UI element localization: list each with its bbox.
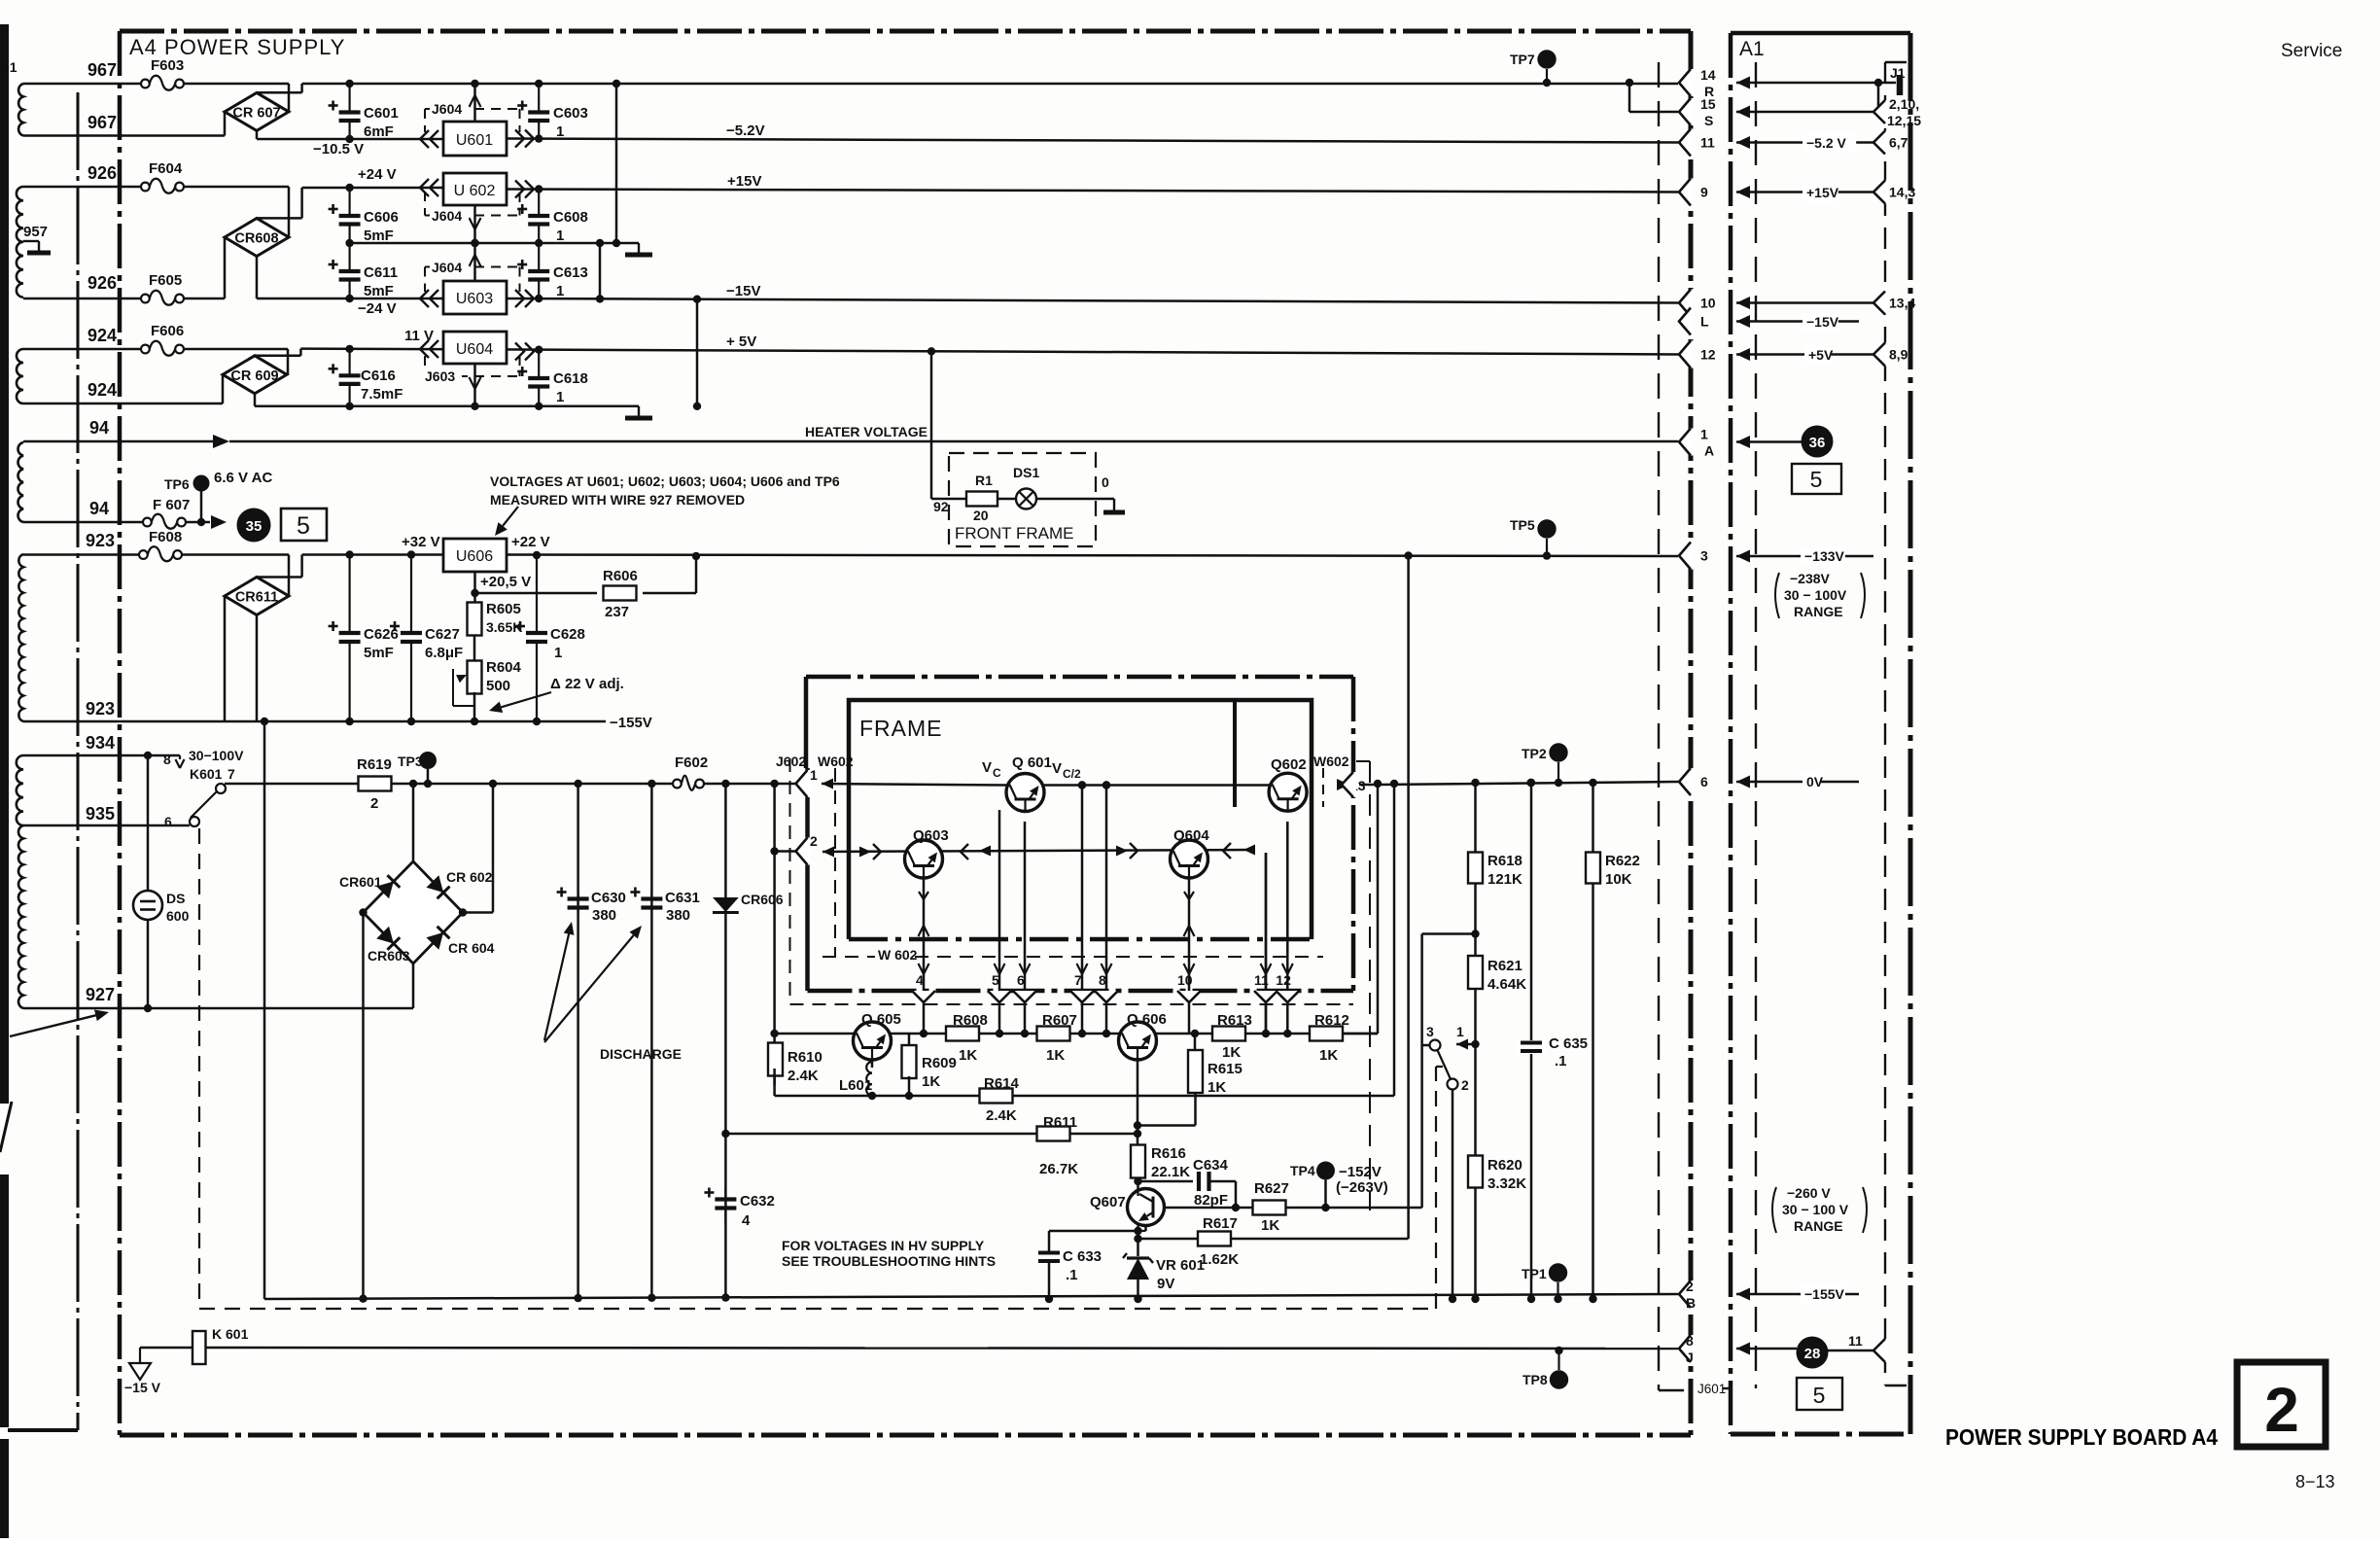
svg-text:A: A (1704, 443, 1714, 459)
svg-text:.1: .1 (1066, 1267, 1078, 1283)
svg-text:F604: F604 (149, 160, 183, 177)
svg-text:1: 1 (1456, 1024, 1464, 1039)
svg-text:TP3: TP3 (398, 754, 423, 769)
svg-text:30 − 100V: 30 − 100V (1784, 587, 1847, 603)
svg-text:C616: C616 (361, 368, 396, 384)
svg-text:3: 3 (1426, 1024, 1434, 1039)
svg-text:−155V: −155V (1804, 1286, 1845, 1302)
svg-text:C: C (993, 766, 1001, 780)
svg-text:26.7K: 26.7K (1039, 1161, 1078, 1177)
svg-text:1.62K: 1.62K (1200, 1251, 1239, 1268)
svg-text:TP4: TP4 (1290, 1163, 1315, 1178)
svg-text:2: 2 (2264, 1375, 2299, 1445)
svg-text:+15V: +15V (1806, 185, 1839, 200)
svg-text:J601: J601 (1697, 1382, 1726, 1396)
svg-text:CR 607: CR 607 (232, 105, 280, 121)
svg-text:6,7: 6,7 (1889, 135, 1908, 151)
svg-text:0V: 0V (1806, 774, 1824, 789)
svg-text:F602: F602 (675, 754, 708, 771)
svg-text:1K: 1K (1319, 1047, 1338, 1064)
svg-text:A1: A1 (1739, 38, 1765, 60)
svg-text:2: 2 (1686, 1279, 1694, 1294)
svg-text:4: 4 (916, 972, 924, 988)
svg-text:TP5: TP5 (1510, 517, 1535, 533)
svg-text:FRAME: FRAME (859, 716, 943, 741)
svg-text:CR603: CR603 (367, 948, 410, 964)
svg-text:82pF: 82pF (1194, 1192, 1228, 1209)
svg-text:K 601: K 601 (212, 1326, 249, 1342)
svg-text:12: 12 (1700, 347, 1716, 363)
svg-text:R612: R612 (1314, 1012, 1349, 1029)
svg-text:C618: C618 (553, 370, 588, 387)
svg-text:5mF: 5mF (364, 645, 394, 661)
svg-text:2: 2 (370, 795, 378, 812)
svg-text:6mF: 6mF (364, 123, 394, 140)
svg-text:F606: F606 (151, 323, 184, 339)
svg-text:U603: U603 (456, 291, 493, 307)
svg-text:F608: F608 (149, 529, 182, 545)
svg-text:R606: R606 (603, 568, 638, 584)
svg-text:−5.2V: −5.2V (726, 123, 765, 139)
svg-text:C626: C626 (364, 626, 399, 643)
svg-text:924: 924 (87, 380, 117, 400)
svg-text:J604: J604 (432, 208, 462, 224)
svg-text:R618: R618 (1487, 853, 1522, 869)
svg-text:11 V: 11 V (404, 328, 434, 344)
svg-text:C 635: C 635 (1549, 1035, 1588, 1052)
svg-text:R615: R615 (1207, 1061, 1242, 1077)
svg-text:CR608: CR608 (234, 231, 278, 247)
svg-text:923: 923 (86, 699, 115, 719)
svg-text:967: 967 (87, 113, 117, 132)
svg-text:967: 967 (87, 60, 117, 80)
svg-text:TP8: TP8 (1522, 1372, 1548, 1387)
svg-text:V: V (982, 759, 992, 776)
svg-text:+32 V: +32 V (402, 534, 440, 550)
svg-text:Service: Service (2281, 41, 2342, 61)
svg-text:C630: C630 (591, 890, 626, 906)
svg-text:11: 11 (1254, 972, 1269, 988)
svg-text:2,10,: 2,10, (1889, 96, 1919, 112)
svg-text:1K: 1K (1261, 1217, 1279, 1234)
svg-text:2.4K: 2.4K (986, 1107, 1017, 1124)
svg-text:C611: C611 (364, 264, 398, 281)
svg-text:R619: R619 (357, 756, 392, 773)
svg-text:W602: W602 (1313, 754, 1349, 769)
svg-text:20: 20 (973, 508, 989, 523)
svg-text:R627: R627 (1254, 1180, 1289, 1197)
svg-text:Q602: Q602 (1271, 756, 1307, 773)
svg-text:957: 957 (23, 224, 48, 240)
svg-text:VR 601: VR 601 (1156, 1257, 1205, 1274)
svg-text:380: 380 (592, 907, 616, 924)
svg-text:237: 237 (605, 604, 629, 620)
svg-text:8−13: 8−13 (2295, 1472, 2335, 1491)
svg-text:−10.5 V: −10.5 V (313, 141, 364, 158)
svg-text:R621: R621 (1487, 958, 1522, 974)
svg-text:5: 5 (297, 512, 310, 540)
svg-text:30−100V: 30−100V (189, 748, 244, 763)
svg-text:5: 5 (1810, 467, 1823, 492)
svg-text:RANGE: RANGE (1794, 604, 1843, 619)
svg-text:DS1: DS1 (1013, 465, 1039, 480)
svg-text:L: L (1700, 314, 1709, 330)
svg-text:J604: J604 (432, 260, 462, 275)
svg-text:380: 380 (666, 907, 690, 924)
svg-text:R610: R610 (787, 1049, 822, 1066)
svg-text:1: 1 (556, 283, 564, 299)
svg-text:F 607: F 607 (153, 497, 190, 513)
svg-text:−260 V: −260 V (1787, 1185, 1831, 1201)
svg-text:12,15: 12,15 (1887, 113, 1921, 128)
svg-text:6.8μF: 6.8μF (425, 645, 463, 661)
svg-text:R1: R1 (975, 473, 993, 488)
svg-text:TP6: TP6 (164, 476, 190, 492)
svg-text:+ 5V: + 5V (726, 333, 756, 350)
svg-text:C606: C606 (364, 209, 399, 226)
svg-text:R609: R609 (922, 1055, 957, 1071)
svg-text:W602: W602 (818, 754, 854, 769)
svg-text:R604: R604 (486, 659, 522, 676)
svg-text:11: 11 (1848, 1333, 1863, 1349)
svg-text:W 602: W 602 (878, 947, 918, 963)
svg-text:−238V: −238V (1790, 571, 1831, 586)
svg-text:926: 926 (87, 273, 117, 293)
svg-text:+24 V: +24 V (358, 166, 397, 183)
svg-text:FOR VOLTAGES IN HV SUPPLY: FOR VOLTAGES IN HV SUPPLY (782, 1238, 985, 1253)
svg-text:R613: R613 (1217, 1012, 1252, 1029)
svg-text:1: 1 (556, 123, 564, 140)
svg-text:DS: DS (166, 891, 185, 906)
svg-text:934: 934 (86, 733, 115, 753)
svg-text:5: 5 (1813, 1383, 1826, 1408)
svg-text:FRONT FRAME: FRONT FRAME (955, 524, 1073, 543)
svg-text:923: 923 (86, 531, 115, 550)
svg-text:6.6 V AC: 6.6 V AC (214, 470, 272, 486)
svg-text:121K: 121K (1487, 871, 1522, 888)
svg-text:S: S (1704, 113, 1713, 128)
svg-text:+5V: +5V (1808, 347, 1834, 363)
svg-text:30 − 100 V: 30 − 100 V (1782, 1202, 1849, 1217)
svg-text:1K: 1K (959, 1047, 977, 1064)
svg-text:C 633: C 633 (1063, 1248, 1102, 1265)
svg-text:R616: R616 (1151, 1145, 1186, 1162)
svg-text:94: 94 (89, 499, 109, 518)
svg-text:CR606: CR606 (741, 892, 784, 907)
svg-text:R620: R620 (1487, 1157, 1522, 1174)
svg-text:.1: .1 (1555, 1053, 1567, 1070)
svg-text:−15V: −15V (1806, 314, 1839, 330)
svg-text:−152V: −152V (1339, 1164, 1382, 1180)
svg-text:1K: 1K (922, 1073, 940, 1090)
svg-text:U606: U606 (456, 548, 493, 565)
svg-text:CR 604: CR 604 (448, 940, 495, 956)
svg-text:U601: U601 (456, 132, 493, 149)
svg-text:R614: R614 (984, 1075, 1020, 1092)
svg-text:TP1: TP1 (1522, 1266, 1547, 1281)
svg-text:B: B (1686, 1295, 1696, 1311)
svg-text:Q 606: Q 606 (1127, 1011, 1167, 1028)
svg-text:J: J (1686, 1350, 1694, 1365)
svg-text:8: 8 (1099, 972, 1106, 988)
svg-text:−15V: −15V (726, 283, 760, 299)
svg-text:C603: C603 (553, 105, 588, 122)
svg-text:−155V: −155V (610, 715, 652, 731)
svg-text:J602: J602 (776, 754, 806, 769)
svg-text:11: 11 (1700, 135, 1715, 151)
svg-text:DISCHARGE: DISCHARGE (600, 1046, 682, 1062)
svg-text:2.4K: 2.4K (787, 1068, 819, 1084)
svg-text:1K: 1K (1222, 1044, 1241, 1061)
svg-text:10: 10 (1177, 972, 1193, 988)
svg-text:5mF: 5mF (364, 283, 394, 299)
svg-text:600: 600 (166, 908, 190, 924)
svg-text:8: 8 (1686, 1333, 1694, 1349)
svg-text:L601: L601 (839, 1077, 872, 1094)
svg-text:9V: 9V (1157, 1276, 1174, 1292)
svg-text:F603: F603 (151, 57, 184, 74)
svg-text:1: 1 (554, 645, 562, 661)
svg-text:C631: C631 (665, 890, 700, 906)
svg-text:3: 3 (1700, 548, 1708, 564)
svg-text:8,9: 8,9 (1889, 347, 1908, 363)
svg-text:MEASURED WITH WIRE 927 REMOVED: MEASURED WITH WIRE 927 REMOVED (490, 492, 745, 508)
svg-text:C601: C601 (364, 105, 399, 122)
svg-text:6: 6 (1700, 774, 1708, 789)
svg-text:9: 9 (1700, 185, 1708, 200)
svg-text:Q 605: Q 605 (861, 1011, 901, 1028)
svg-text:C613: C613 (553, 264, 588, 281)
svg-text:7: 7 (227, 766, 235, 782)
svg-text:1: 1 (1700, 427, 1708, 442)
svg-text:−24 V: −24 V (358, 300, 397, 317)
svg-text:R607: R607 (1042, 1012, 1077, 1029)
svg-text:5mF: 5mF (364, 228, 394, 244)
svg-text:926: 926 (87, 163, 117, 183)
svg-text:−5.2 V: −5.2 V (1806, 135, 1847, 151)
svg-text:13,4: 13,4 (1889, 296, 1915, 311)
svg-text:POWER SUPPLY BOARD A4: POWER SUPPLY BOARD A4 (1945, 1424, 2218, 1450)
svg-text:TP2: TP2 (1522, 746, 1547, 761)
svg-text:4: 4 (742, 1212, 751, 1229)
svg-text:6: 6 (1017, 972, 1025, 988)
svg-text:CR601: CR601 (339, 874, 382, 890)
svg-text:R605: R605 (486, 601, 521, 617)
svg-text:0: 0 (1102, 474, 1109, 490)
svg-text:CR 602: CR 602 (446, 869, 493, 885)
svg-text:94: 94 (89, 418, 109, 438)
svg-text:28: 28 (1804, 1346, 1821, 1362)
svg-text:VOLTAGES AT U601; U602; U603;: VOLTAGES AT U601; U602; U603; U604; U606… (490, 473, 840, 489)
svg-text:+22 V: +22 V (511, 534, 550, 550)
svg-text:12: 12 (1276, 972, 1291, 988)
svg-text:TP7: TP7 (1510, 52, 1535, 67)
svg-text:10K: 10K (1605, 871, 1632, 888)
svg-text:K601: K601 (190, 766, 223, 782)
svg-text:U 602: U 602 (454, 183, 496, 199)
svg-text:SEE TROUBLESHOOTING HINTS: SEE TROUBLESHOOTING HINTS (782, 1253, 996, 1269)
svg-text:Q 601: Q 601 (1012, 754, 1052, 771)
svg-text:935: 935 (86, 804, 115, 824)
svg-text:J603: J603 (425, 368, 455, 384)
svg-text:927: 927 (86, 985, 115, 1004)
svg-text:C608: C608 (553, 209, 588, 226)
svg-text:F605: F605 (149, 272, 182, 289)
svg-text:(−263V): (−263V) (1336, 1179, 1388, 1196)
svg-text:4.64K: 4.64K (1487, 976, 1526, 993)
svg-text:92: 92 (933, 499, 949, 514)
svg-text:2: 2 (810, 833, 818, 849)
svg-text:C632: C632 (740, 1193, 775, 1210)
svg-text:3.32K: 3.32K (1487, 1175, 1526, 1192)
svg-text:R611: R611 (1043, 1114, 1077, 1131)
svg-text:35: 35 (246, 518, 262, 535)
svg-text:−133V: −133V (1804, 548, 1845, 564)
svg-text:J604: J604 (432, 101, 462, 117)
svg-text:C627: C627 (425, 626, 460, 643)
svg-text:1: 1 (556, 389, 564, 405)
svg-text:HEATER VOLTAGE: HEATER VOLTAGE (805, 424, 927, 439)
svg-text:Δ 22 V adj.: Δ 22 V adj. (550, 676, 624, 692)
svg-text:924: 924 (87, 326, 117, 345)
svg-text:C/2: C/2 (1063, 767, 1081, 781)
svg-text:C634: C634 (1193, 1157, 1229, 1174)
svg-text:+15V: +15V (727, 173, 761, 190)
svg-text:V: V (1052, 760, 1062, 777)
svg-text:22.1K: 22.1K (1151, 1164, 1190, 1180)
svg-text:10: 10 (1700, 296, 1716, 311)
svg-text:RANGE: RANGE (1794, 1218, 1843, 1234)
svg-text:7: 7 (1074, 972, 1082, 988)
svg-text:1: 1 (810, 767, 818, 783)
svg-text:500: 500 (486, 678, 510, 694)
svg-text:CR 609: CR 609 (230, 368, 278, 384)
svg-text:A4 POWER SUPPLY: A4 POWER SUPPLY (129, 35, 345, 59)
svg-text:7.5mF: 7.5mF (361, 386, 402, 403)
svg-text:Q603: Q603 (913, 827, 949, 844)
svg-text:1K: 1K (1046, 1047, 1065, 1064)
svg-text:U604: U604 (456, 341, 493, 358)
svg-text:14: 14 (1700, 67, 1716, 83)
svg-text:14,3: 14,3 (1889, 185, 1915, 200)
svg-text:01: 01 (2, 59, 17, 75)
svg-text:36: 36 (1809, 435, 1826, 451)
svg-text:Q604: Q604 (1173, 827, 1209, 844)
svg-text:2: 2 (1461, 1077, 1469, 1093)
svg-text:15: 15 (1700, 96, 1716, 112)
svg-text:R617: R617 (1203, 1215, 1238, 1232)
svg-text:1: 1 (556, 228, 564, 244)
svg-text:8: 8 (163, 752, 171, 767)
svg-text:C628: C628 (550, 626, 585, 643)
svg-text:6: 6 (164, 814, 172, 829)
svg-text:1K: 1K (1207, 1079, 1226, 1096)
svg-text:5: 5 (992, 972, 999, 988)
svg-text:R608: R608 (953, 1012, 988, 1029)
svg-text:+20,5 V: +20,5 V (480, 574, 531, 590)
svg-text:−15 V: −15 V (124, 1380, 161, 1395)
svg-text:Q607: Q607 (1090, 1194, 1126, 1210)
svg-text:R622: R622 (1605, 853, 1640, 869)
svg-text:CR611: CR611 (235, 590, 278, 606)
